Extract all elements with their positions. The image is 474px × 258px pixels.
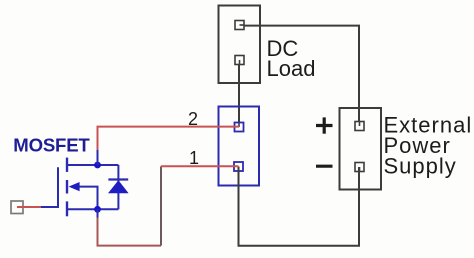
wire: header pin 1 down, right and up to - terminal <box>239 167 360 246</box>
label pin number 2 <box>188 109 198 129</box>
drain lead <box>68 164 98 166</box>
gate lead and gate bar <box>41 167 58 207</box>
channel segment middle <box>66 180 68 194</box>
plus symbol (+ terminal marking) <box>316 117 333 133</box>
junction dot at drain node <box>94 162 101 169</box>
cathode bar <box>108 178 128 180</box>
label "MOSFET" <box>13 134 90 155</box>
pin square: header pin 1 <box>234 162 243 171</box>
pin square: DC Load top terminal <box>235 21 244 30</box>
svg-text:Supply: Supply <box>384 153 457 178</box>
connector J2 "DC Load" box <box>219 6 261 84</box>
transistor Q1 MOSFET symbol <box>41 158 98 217</box>
wire: DC Load bottom terminal down to header pin 2 <box>238 60 240 127</box>
body diode D1 <box>98 165 129 209</box>
pin square: External Power Supply - terminal <box>355 163 364 172</box>
channel segment bottom <box>66 201 68 216</box>
wire: red gate wire from pad to gate lead <box>17 206 41 208</box>
junction dot at source node <box>94 206 101 213</box>
wire: dark vertical riser to pin 1 level <box>160 166 162 245</box>
diode triangle (anode, pointing up) <box>108 180 129 193</box>
label pin number 1 <box>189 148 199 168</box>
source lead <box>68 208 98 210</box>
pin square: header pin 2 <box>235 123 244 132</box>
drain pin stub (blue) going up <box>97 150 99 165</box>
label "DC Load" <box>267 36 316 81</box>
wire: DC Load top terminal to External Power Supply + terminal <box>240 26 360 126</box>
wire: red drain wire up and right to header pin 2 <box>98 127 240 150</box>
svg-text:MOSFET: MOSFET <box>13 134 90 155</box>
gate pad square (input terminal) <box>11 201 23 214</box>
svg-text:Load: Load <box>267 56 316 81</box>
channel segment top <box>66 158 68 172</box>
connector J3 "External Power Supply" box <box>340 108 382 190</box>
source pin stub (blue) going down <box>97 209 99 217</box>
wire: red source wire down and right <box>98 218 162 246</box>
pin square: External Power Supply + terminal <box>355 122 364 131</box>
body connection with arrow <box>79 187 98 210</box>
label "External Power Supply" <box>384 113 473 179</box>
minus symbol (- terminal marking) <box>316 165 333 168</box>
wire: red wire right to header pin 1 <box>161 165 239 167</box>
connector J1 (blue 2-pin header) box <box>219 107 260 186</box>
arrow of MOSFET body (points left) <box>69 182 80 191</box>
svg-text:1: 1 <box>189 148 199 168</box>
pin square: DC Load bottom terminal <box>235 56 244 65</box>
